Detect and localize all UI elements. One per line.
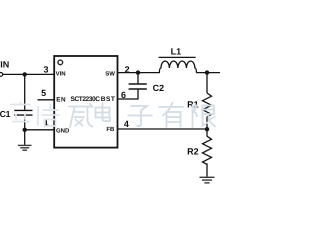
svg-text:SW: SW [105,71,115,78]
wire SW junction down to C2 [137,73,139,84]
svg-text:FB: FB [106,126,115,133]
svg-text:5: 5 [41,88,46,98]
wire L1 to output (right edge) [196,72,220,74]
node junction VOUT/R1 [205,70,209,74]
ground symbol (right) [200,177,215,183]
wire junction down to R1 [206,73,208,93]
watermark char 7 [193,105,216,128]
watermark char 4 [96,104,111,122]
inductor L1 [159,57,197,72]
node junction FB/R1/R2 [205,127,209,131]
terminal VIN (input port circle) [0,73,3,77]
svg-text:3: 3 [43,65,48,75]
watermark char 2 [38,105,59,127]
wire junction down to ground [24,130,26,145]
wire C2 bottom to BST pin [118,90,139,99]
wire VIN terminal to pin 3 [3,73,54,75]
node junction SW/C2 [136,70,140,74]
wire R2 to ground [206,163,208,176]
watermark char 6 [159,103,183,128]
capacitor C2 [129,84,147,89]
svg-text:4: 4 [124,119,129,129]
svg-text:C1: C1 [0,109,11,119]
wire FB pin 4 to junction [118,128,208,130]
svg-text:2: 2 [125,64,130,74]
resistor R1 [203,93,212,117]
pin-1 marker circle [58,60,63,65]
wire junction down to R2 [206,129,208,136]
node junction VIN/C1 [23,72,27,76]
IC U1 SCT2230C box [54,56,117,148]
wire C1 bottom to GND junction [24,116,26,130]
node junction C1/GND pin [23,128,27,132]
watermark (light blue CJK-like strokes, drawn on top) [11,103,215,128]
svg-text:VIN: VIN [0,60,9,70]
svg-text:SCT2230C: SCT2230C [71,96,101,103]
resistor R2 [203,136,212,164]
wire SW pin 2 to L1 and output [118,72,160,74]
wire R1 to FB junction [206,117,208,129]
svg-text:L1: L1 [171,47,182,57]
svg-text:GND: GND [56,127,70,134]
svg-text:EN: EN [56,96,66,103]
wire EN pin 5 stub [38,99,55,101]
capacitor C1 [14,110,32,115]
ground symbol (left) [18,145,32,150]
wire junction down to C1 [24,74,26,109]
watermark char 5 [128,106,152,126]
svg-text:BST: BST [101,96,116,103]
wire junction to GND pin 1 [25,129,55,131]
watermark char 1 [11,103,30,122]
svg-text:VIN: VIN [56,71,66,78]
svg-text:C2: C2 [153,83,165,93]
watermark char 3 [69,104,93,128]
svg-text:R2: R2 [187,147,199,157]
svg-text:6: 6 [121,90,126,100]
